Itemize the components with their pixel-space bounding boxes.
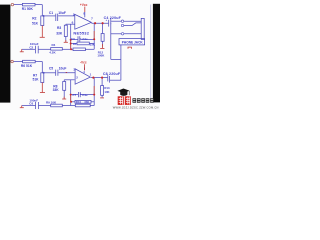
svg-text:R2: R2 bbox=[32, 16, 36, 20]
svg-text:10uF: 10uF bbox=[58, 11, 66, 15]
svg-text:R3: R3 bbox=[57, 26, 61, 30]
svg-text:33K: 33K bbox=[90, 42, 96, 46]
svg-text:C3: C3 bbox=[71, 37, 75, 41]
svg-text:R5: R5 bbox=[73, 42, 77, 46]
svg-text:C5: C5 bbox=[49, 67, 53, 71]
svg-text:C6: C6 bbox=[29, 102, 33, 106]
svg-text:33K: 33K bbox=[84, 100, 89, 104]
svg-text:NE5532: NE5532 bbox=[73, 31, 89, 36]
svg-text:R10: R10 bbox=[76, 100, 82, 104]
svg-text:R4: R4 bbox=[52, 43, 56, 47]
svg-text:C1: C1 bbox=[49, 11, 53, 15]
svg-text:C4 220uF: C4 220uF bbox=[104, 16, 122, 20]
svg-text:-Vcc: -Vcc bbox=[80, 61, 87, 65]
svg-text:WWW.JDZJ.DZSC.ZZW.COM.CN: WWW.JDZJ.DZSC.ZZW.COM.CN bbox=[113, 105, 159, 109]
svg-text:R6 51K: R6 51K bbox=[21, 64, 33, 68]
svg-text:C2: C2 bbox=[29, 45, 33, 49]
svg-text:PHONE JACK: PHONE JACK bbox=[122, 41, 144, 45]
svg-text:51K: 51K bbox=[32, 21, 39, 25]
svg-text:C7: C7 bbox=[72, 93, 76, 97]
svg-text:R9 10K: R9 10K bbox=[46, 100, 57, 104]
svg-text:10uF: 10uF bbox=[59, 66, 67, 70]
svg-text:24u: 24u bbox=[82, 93, 87, 97]
svg-text:R1 50K: R1 50K bbox=[22, 7, 34, 11]
svg-text:33K: 33K bbox=[56, 32, 63, 36]
svg-text:51K: 51K bbox=[33, 77, 40, 81]
svg-text:10K: 10K bbox=[104, 90, 109, 94]
svg-text:100K: 100K bbox=[97, 53, 105, 57]
svg-text:+Vcc: +Vcc bbox=[80, 3, 88, 7]
svg-text:C8 220uF: C8 220uF bbox=[103, 72, 121, 76]
svg-text:24u: 24u bbox=[82, 37, 87, 41]
svg-text:4.2K: 4.2K bbox=[49, 51, 56, 55]
svg-text:33K: 33K bbox=[53, 88, 60, 92]
